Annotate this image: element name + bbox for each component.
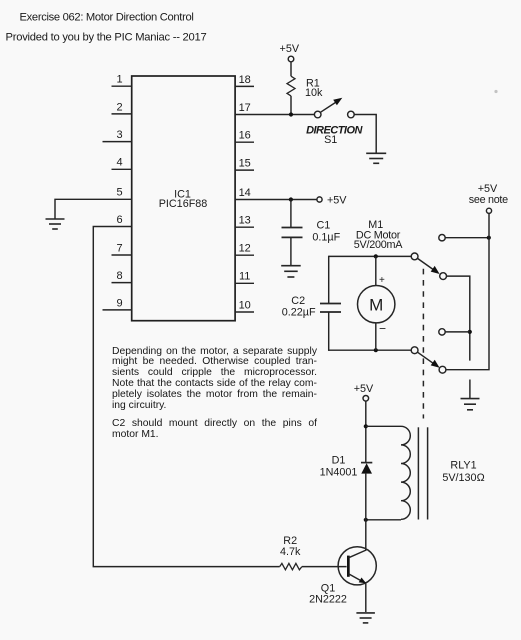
wire motor loop top bbox=[329, 255, 412, 257]
wire throw1 to inner bus bbox=[447, 276, 470, 361]
pin 10 stub bbox=[235, 299, 254, 312]
wire pin5 to ground bbox=[55, 199, 132, 218]
svg-text:2: 2 bbox=[116, 101, 122, 113]
wire to C1 bbox=[290, 200, 292, 228]
wire NC top to +5V bus bbox=[445, 237, 489, 239]
svg-text:C1: C1 bbox=[317, 220, 331, 232]
pin 16 stub bbox=[235, 130, 254, 143]
svg-text:4.7k: 4.7k bbox=[280, 546, 301, 558]
ground pin5 bbox=[46, 219, 65, 229]
pin 11 stub bbox=[235, 271, 254, 284]
transistor Q1 2N2222 bbox=[309, 547, 376, 606]
svg-text:+5V: +5V bbox=[327, 194, 347, 206]
svg-text:1N4001: 1N4001 bbox=[320, 466, 358, 478]
svg-text:+5V: +5V bbox=[478, 183, 498, 195]
wire R2 to base bbox=[302, 566, 347, 568]
junction dot coil top bbox=[364, 424, 368, 428]
svg-text:M: M bbox=[369, 295, 383, 314]
svg-text:D1: D1 bbox=[332, 455, 346, 467]
svg-text:8: 8 bbox=[116, 270, 122, 282]
relay pole2 throw circle bbox=[439, 366, 446, 373]
relay contact middle circle bbox=[439, 329, 445, 335]
svg-text:S1: S1 bbox=[324, 134, 337, 146]
svg-text:2N2222: 2N2222 bbox=[309, 594, 347, 606]
svg-text:+5V: +5V bbox=[354, 383, 374, 395]
svg-text:9: 9 bbox=[116, 297, 122, 309]
wire coil bottom bbox=[366, 519, 401, 521]
svg-text:0.1µF: 0.1µF bbox=[312, 231, 340, 243]
pin 12 stub bbox=[235, 243, 254, 256]
pin 15 stub bbox=[235, 158, 254, 171]
svg-text:18: 18 bbox=[239, 74, 251, 86]
wire pin6 to R2 bbox=[93, 227, 279, 567]
wire C1 to ground bbox=[290, 237, 292, 265]
svg-text:5V/130Ω: 5V/130Ω bbox=[442, 472, 484, 484]
IC1 PIC16F88 microcontroller bbox=[132, 76, 235, 321]
relay pole1 throw circle bbox=[440, 273, 447, 280]
label +5V see note bbox=[469, 183, 508, 206]
svg-text:+: + bbox=[379, 275, 385, 286]
svg-text:12: 12 bbox=[239, 243, 251, 255]
svg-text:+5V: +5V bbox=[280, 43, 300, 55]
dashed mechanical link bbox=[422, 269, 424, 419]
junction dot C1 bbox=[289, 197, 293, 201]
ground Q1 bbox=[356, 613, 375, 623]
svg-text:see note: see note bbox=[469, 194, 508, 206]
capacitor C2 0.22uF bbox=[282, 295, 341, 319]
wire D1 to collector bbox=[365, 474, 367, 551]
pin 9 stub bbox=[103, 297, 132, 310]
svg-text:7: 7 bbox=[116, 242, 122, 254]
relay contact pole1 circle bbox=[411, 253, 418, 260]
capacitor C1 0.1uF bbox=[282, 220, 341, 244]
relay pole1 lever arrow bbox=[418, 258, 440, 274]
svg-text:3: 3 bbox=[116, 129, 122, 141]
note text block bbox=[112, 347, 317, 442]
ground relay bbox=[461, 399, 480, 410]
resistor R1 10k bbox=[287, 76, 323, 99]
svg-text:16: 16 bbox=[239, 130, 251, 142]
svg-text:4: 4 bbox=[116, 157, 122, 169]
relay contact NC top circle bbox=[439, 235, 445, 241]
svg-text:11: 11 bbox=[239, 271, 250, 283]
wire emitter to ground bbox=[365, 584, 367, 613]
junction dot inner bus bbox=[468, 330, 472, 334]
svg-text:14: 14 bbox=[239, 187, 251, 199]
wire pin14 to +5V terminal bbox=[235, 199, 317, 201]
svg-text:Exercise 062: Motor Direction: Exercise 062: Motor Direction Control bbox=[20, 12, 194, 24]
pin 2 stub bbox=[112, 101, 132, 114]
wire middle circle to inner bus bbox=[445, 331, 470, 333]
scan speck artifact bbox=[494, 90, 497, 93]
svg-text:RLY1: RLY1 bbox=[450, 460, 476, 472]
pin 4 stub bbox=[112, 157, 132, 170]
relay pole2 lever arrow bbox=[418, 352, 440, 368]
terminal circle +5V see note bbox=[486, 208, 491, 213]
svg-text:5V/200mA: 5V/200mA bbox=[354, 239, 403, 251]
svg-text:1: 1 bbox=[116, 74, 122, 86]
svg-text:Provided to you by the PIC Man: Provided to you by the PIC Maniac -- 201… bbox=[6, 32, 207, 44]
resistor R2 4.7k bbox=[280, 535, 302, 570]
svg-text:10k: 10k bbox=[305, 87, 323, 99]
pin 13 stub bbox=[235, 215, 254, 228]
switch S1 throw circle bbox=[348, 111, 355, 118]
junction dot motor top bbox=[374, 254, 378, 258]
switch S1 lever arrow bbox=[321, 98, 343, 113]
svg-text:15: 15 bbox=[239, 158, 251, 170]
svg-text:17: 17 bbox=[239, 102, 251, 114]
wire coil top bbox=[366, 425, 401, 427]
junction dot +5V bus bbox=[487, 236, 491, 240]
wire S1 to ground bbox=[354, 115, 376, 154]
labels M1 DC Motor bbox=[354, 219, 403, 251]
diode D1 1N4001 bbox=[320, 455, 373, 479]
terminal circle +5V coil bbox=[363, 396, 369, 402]
pin 18 stub bbox=[235, 74, 254, 87]
wire motor minus lead bbox=[375, 323, 377, 350]
pin 1 stub bbox=[112, 74, 132, 87]
wire pin17 to S1 bbox=[235, 114, 314, 116]
switch S1 pole circle bbox=[314, 111, 321, 118]
ground S1 bbox=[366, 153, 386, 163]
pin 7 stub bbox=[112, 242, 132, 255]
relay coil RLY1 bbox=[401, 426, 410, 519]
terminal circle +5V pin14 bbox=[317, 197, 322, 202]
wire motor loop left upper bbox=[328, 256, 330, 304]
wire motor loop left lower bbox=[328, 312, 330, 351]
svg-text:−: − bbox=[379, 322, 386, 336]
relay core lines bbox=[418, 427, 427, 519]
wire R1 to pin17 net bbox=[290, 96, 292, 115]
relay pole2 circle bbox=[411, 347, 418, 354]
terminal circle +5V R1 bbox=[288, 56, 294, 62]
wire +5V down to D1 bbox=[365, 401, 367, 462]
svg-text:10: 10 bbox=[239, 299, 251, 311]
motor M1 circle bbox=[358, 286, 395, 323]
wire motor plus lead bbox=[375, 256, 377, 285]
junction dot motor bottom bbox=[374, 348, 378, 352]
svg-text:PIC16F88: PIC16F88 bbox=[159, 198, 208, 210]
svg-text:6: 6 bbox=[116, 214, 122, 226]
pin 8 stub bbox=[112, 270, 132, 283]
svg-text:13: 13 bbox=[239, 215, 251, 227]
wire +5V bus right bbox=[446, 213, 489, 369]
wire +5V to R1 bbox=[290, 62, 292, 76]
wire motor loop bottom bbox=[329, 349, 412, 351]
svg-text:5: 5 bbox=[116, 187, 122, 199]
junction dot coil bottom bbox=[364, 518, 368, 522]
ground C1 bbox=[281, 266, 301, 277]
pin 3 stub bbox=[103, 129, 132, 142]
svg-text:C2: C2 bbox=[291, 295, 305, 307]
ground stub relay bbox=[469, 380, 471, 399]
svg-text:0.22µF: 0.22µF bbox=[282, 306, 316, 318]
junction dot R1/pin17 bbox=[289, 112, 293, 116]
